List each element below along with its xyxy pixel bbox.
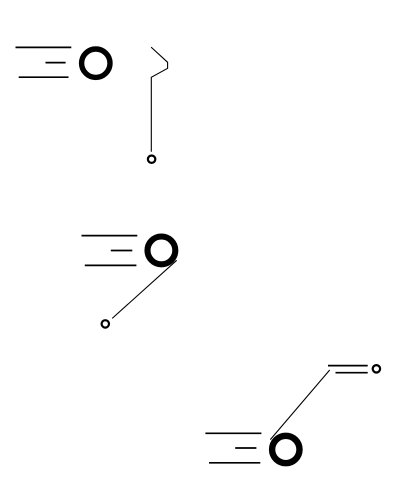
motion line B1 bottom [19, 76, 69, 78]
motion line B3 middle [235, 447, 256, 449]
motion line N3 top [328, 365, 368, 367]
node N3 [373, 365, 380, 372]
ball B2 [148, 237, 176, 265]
node N2 [102, 320, 109, 327]
motion line B3 top [205, 432, 261, 434]
wire W1 trajectory [151, 47, 168, 152]
motion line B2 bottom [85, 264, 137, 266]
node N1 [148, 156, 155, 163]
motion line B2 top [82, 235, 138, 237]
ball B1 [82, 49, 110, 77]
motion line N3 bottom [336, 372, 368, 374]
ball B3 [272, 436, 299, 463]
motion line B1 middle [46, 62, 66, 64]
motion line B2 middle [111, 250, 133, 252]
motion line B1 top [16, 46, 72, 48]
motion line B3 bottom [209, 462, 260, 464]
wire W2 trajectory [112, 260, 177, 318]
wire W3 trajectory [270, 370, 329, 440]
